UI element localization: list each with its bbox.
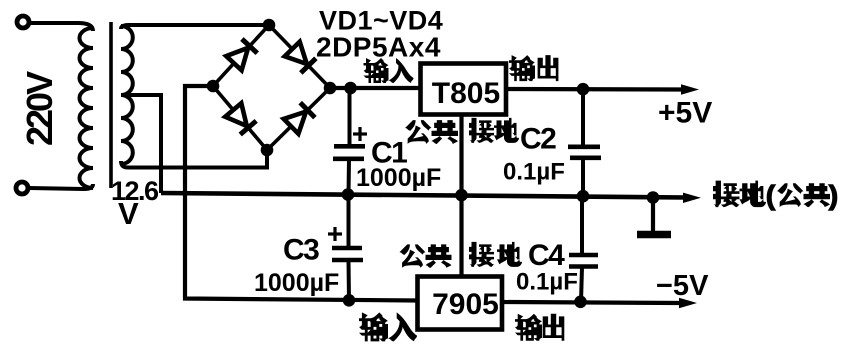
svg-text:2DP5Ax4: 2DP5Ax4 <box>316 32 441 63</box>
transformer secondary winding <box>121 26 133 164</box>
regulator U2 7905 box <box>418 277 503 330</box>
label ground pin 7905 <box>469 242 494 267</box>
capacitor C1 branch wire lower <box>347 159 352 195</box>
svg-text:T805: T805 <box>432 77 500 110</box>
transformer primary winding <box>80 28 94 188</box>
junction C1 top on +rail <box>344 82 357 95</box>
wire secondary top to bridge top node <box>121 25 269 29</box>
wire primary bottom to bottom terminal <box>29 184 93 189</box>
input terminal bottom (220V neutral) <box>16 182 28 194</box>
polarity + of C3 <box>328 232 342 235</box>
svg-text:0.1µF: 0.1µF <box>516 269 578 296</box>
common wire T805/7905 to ground rail <box>459 114 463 277</box>
capacitor C2 branch wire lower <box>581 157 585 197</box>
label common pin 7905 <box>400 244 426 267</box>
diode VD1 <box>226 48 248 71</box>
label output pin T805 <box>509 55 535 81</box>
svg-text:+5V: +5V <box>658 97 712 130</box>
wire secondary bottom to bridge bottom node <box>121 150 267 168</box>
label output pin 7905 <box>515 314 542 341</box>
junction C2 top on +5V rail <box>577 83 590 96</box>
junction C4 bottom on -5V rail <box>574 296 587 309</box>
wire top terminal to primary winding <box>30 23 93 31</box>
capacitor C2 branch wire upper <box>581 89 585 146</box>
regulator U1 T805 box <box>421 64 507 115</box>
svg-text:C3: C3 <box>283 234 319 267</box>
label input pin 7905 <box>359 312 388 341</box>
junction C2 bottom on ground rail <box>577 190 590 203</box>
arrow ground rail <box>683 193 701 203</box>
input terminal top (220V live) <box>17 16 29 28</box>
wire bridge left node to 7905 input rail <box>185 86 417 301</box>
svg-text:−5V: −5V <box>656 270 709 302</box>
svg-text:7905: 7905 <box>432 288 499 321</box>
capacitor C4 branch wire lower <box>581 267 582 302</box>
wire 7905 output to -5V arrow <box>502 302 682 303</box>
svg-text:V: V <box>118 196 139 231</box>
junction bridge right node <box>324 82 337 95</box>
capacitor C3 branch wire lower <box>347 260 352 301</box>
capacitor C2 plates <box>568 145 600 150</box>
arrow -5V output <box>679 298 697 308</box>
ground symbol stub <box>651 198 655 232</box>
junction bridge left node <box>207 80 220 93</box>
label 接地(公共) <box>713 181 740 208</box>
junction bridge top node <box>263 19 276 32</box>
junction C3 bottom on 7905 input rail <box>343 294 356 307</box>
svg-text:): ) <box>829 181 838 211</box>
ground rail (common) <box>161 193 686 198</box>
wire secondary center tap to ground rail corner <box>123 95 161 193</box>
svg-text:1000µF: 1000µF <box>356 164 441 192</box>
junction common on ground rail <box>455 189 468 202</box>
svg-text:1000µF: 1000µF <box>254 269 339 297</box>
label input pin T805 <box>364 58 389 83</box>
wire bridge right node to T805 input <box>330 86 421 90</box>
svg-text:C2: C2 <box>520 123 556 156</box>
svg-text:C4: C4 <box>528 239 565 272</box>
capacitor C4 branch wire upper <box>580 196 584 254</box>
junction bridge bottom node <box>261 144 274 157</box>
transformer core <box>109 22 113 188</box>
capacitor C4 plates <box>569 253 598 258</box>
capacitor C3 plates <box>332 246 362 251</box>
label common pin T805 <box>405 120 432 144</box>
capacitor C1 plates <box>334 144 365 149</box>
junction ground symbol on rail <box>647 191 660 204</box>
label ground pin T805 <box>469 118 494 143</box>
junction C1 bottom on ground rail <box>342 188 355 201</box>
diode VD3 <box>225 103 247 126</box>
polarity + of C1 <box>353 132 367 135</box>
capacitor C1 branch wire upper <box>348 88 352 145</box>
arrow +5V output <box>681 84 699 94</box>
bridge rectifier arms <box>213 25 330 150</box>
diode VD2 <box>285 42 307 64</box>
wire T805 output to +5V arrow <box>506 87 684 92</box>
svg-text:0.1µF: 0.1µF <box>503 159 565 186</box>
capacitor C3 branch wire upper <box>347 195 351 247</box>
diode VD4 <box>284 112 306 134</box>
svg-text:220V: 220V <box>19 71 60 146</box>
ground symbol bar <box>637 231 671 239</box>
svg-text:(: ( <box>766 181 775 211</box>
